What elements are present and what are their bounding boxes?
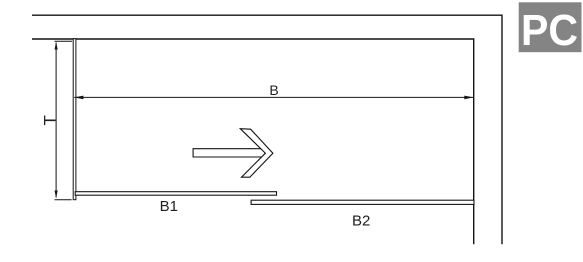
PC badge box bbox=[519, 2, 582, 52]
svg-text:B: B bbox=[269, 82, 278, 98]
wall inner line bbox=[32, 39, 474, 244]
dimension T arrowhead down bbox=[55, 191, 58, 199]
dimension B arrowhead left bbox=[74, 96, 83, 100]
svg-text:PC: PC bbox=[521, 7, 578, 55]
fixed glass panel (left, double line) bbox=[73, 39, 76, 200]
door panel B2 bbox=[251, 200, 474, 204]
wall outer line bbox=[32, 15, 502, 244]
dimension T arrowhead up bbox=[55, 42, 58, 50]
sliding direction arrow shaft bbox=[193, 149, 262, 157]
dimension B line bbox=[74, 96, 473, 98]
dimension T extension tick bottom bbox=[55, 199, 72, 201]
dimension B arrowhead right bbox=[464, 96, 473, 100]
svg-text:B2: B2 bbox=[352, 213, 370, 230]
svg-text:T: T bbox=[41, 115, 60, 125]
dimension T extension tick top bbox=[55, 40, 73, 42]
svg-text:B1: B1 bbox=[160, 198, 178, 215]
sliding direction arrow head bbox=[240, 129, 273, 178]
door panel B1 bbox=[75, 192, 276, 196]
dimension T line bbox=[55, 43, 57, 198]
